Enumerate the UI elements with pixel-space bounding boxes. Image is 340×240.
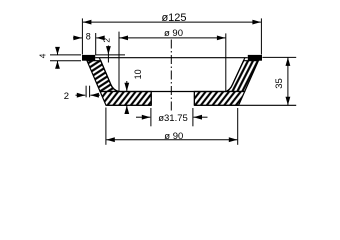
dimension 8 left tail and arrowhead [73,37,82,39]
dimension 2 top: arrow stem [107,46,109,63]
left wall inner cone edge [99,58,118,92]
dimension 35 top extension line [262,56,296,58]
left hub section (hatched) [100,92,151,106]
dimension 8 extension line right [95,33,97,55]
dimension 10 upper arrow (points down at recess floor) [126,81,128,91]
dimension ø125 right arrowhead [252,20,261,25]
left abrasive rim (solid black) [82,55,95,61]
dimension ø125 left arrowhead [83,20,92,25]
svg-text:ø 90: ø 90 [164,28,183,39]
svg-text:ø125: ø125 [161,12,186,24]
svg-text:35: 35 [274,78,285,89]
svg-text:4: 4 [38,53,48,58]
dimension ø125 extension line left [81,18,83,54]
right hub section (hatched) [194,92,244,106]
top face line [95,57,248,59]
svg-text:ø 90: ø 90 [164,131,183,142]
dimension ø90 top left arrowhead [120,36,129,41]
bore right edge [193,92,195,106]
bore left edge [150,92,152,106]
dimension 35 bottom arrowhead (points down) [286,97,291,106]
svg-text:ø31.75: ø31.75 [158,113,188,124]
dimension ø90 bottom extension line right [237,108,239,145]
dimension 4 extension lines [50,54,81,56]
dimension 4 upper arrow (points down) [57,47,59,55]
dimension ø90 top extension line right [225,33,227,91]
dimension ø90 bottom left arrowhead [106,137,115,142]
dimension ø90 top right arrowhead [217,36,226,41]
dimension ø90 top line [120,37,226,39]
dimension ø31.75 extension line left [150,108,152,126]
bottom face line left of bore [106,104,151,106]
dimension 35 top arrowhead (points up) [286,57,291,66]
svg-text:8: 8 [86,32,91,42]
dimension 2 lower-left: right tail and arrowhead [90,94,99,96]
svg-text:10: 10 [133,69,143,79]
dimension 4 lower arrow (points up) [57,61,59,69]
right wall section (hatched) [226,61,258,92]
left wall section (hatched) [87,61,119,92]
dimension 10 lower arrow (points up at bottom face) [126,106,128,113]
right wall inner cone edge [226,58,245,92]
dimension 8 right tail and arrowhead [96,37,104,39]
dimension ø31.75 right tail and arrowhead [194,116,208,118]
recess floor line (continuous across bore) [119,91,227,93]
right abrasive rim (solid black) [248,55,262,61]
dimension ø90 bottom extension line left [105,108,107,145]
dimension ø125 extension line right [260,18,262,54]
dimension ø90 bottom right arrowhead [229,137,238,142]
dimension ø31.75 left tail and arrowhead [136,116,150,118]
svg-text:2: 2 [64,91,69,102]
dimension ø90 top extension line left [118,32,120,91]
dimension ø125 line [83,21,261,23]
dimension 2 lower-left: left tail and arrowhead [76,94,86,96]
svg-text:2: 2 [101,38,111,43]
dimension 2 top: extension line from rim top [95,54,125,56]
dimension 35 line [287,57,289,105]
dimension ø90 bottom line [106,139,237,141]
dimension 2 lower-left: extension lines [85,86,87,98]
dimension ø31.75 extension line right [192,108,194,126]
vertical centerline (dash-dot) [170,40,172,111]
bottom face line right of bore, extended right as 35-dim extension [194,104,296,106]
dimension 2 top: arrowhead pointing down [106,46,111,55]
